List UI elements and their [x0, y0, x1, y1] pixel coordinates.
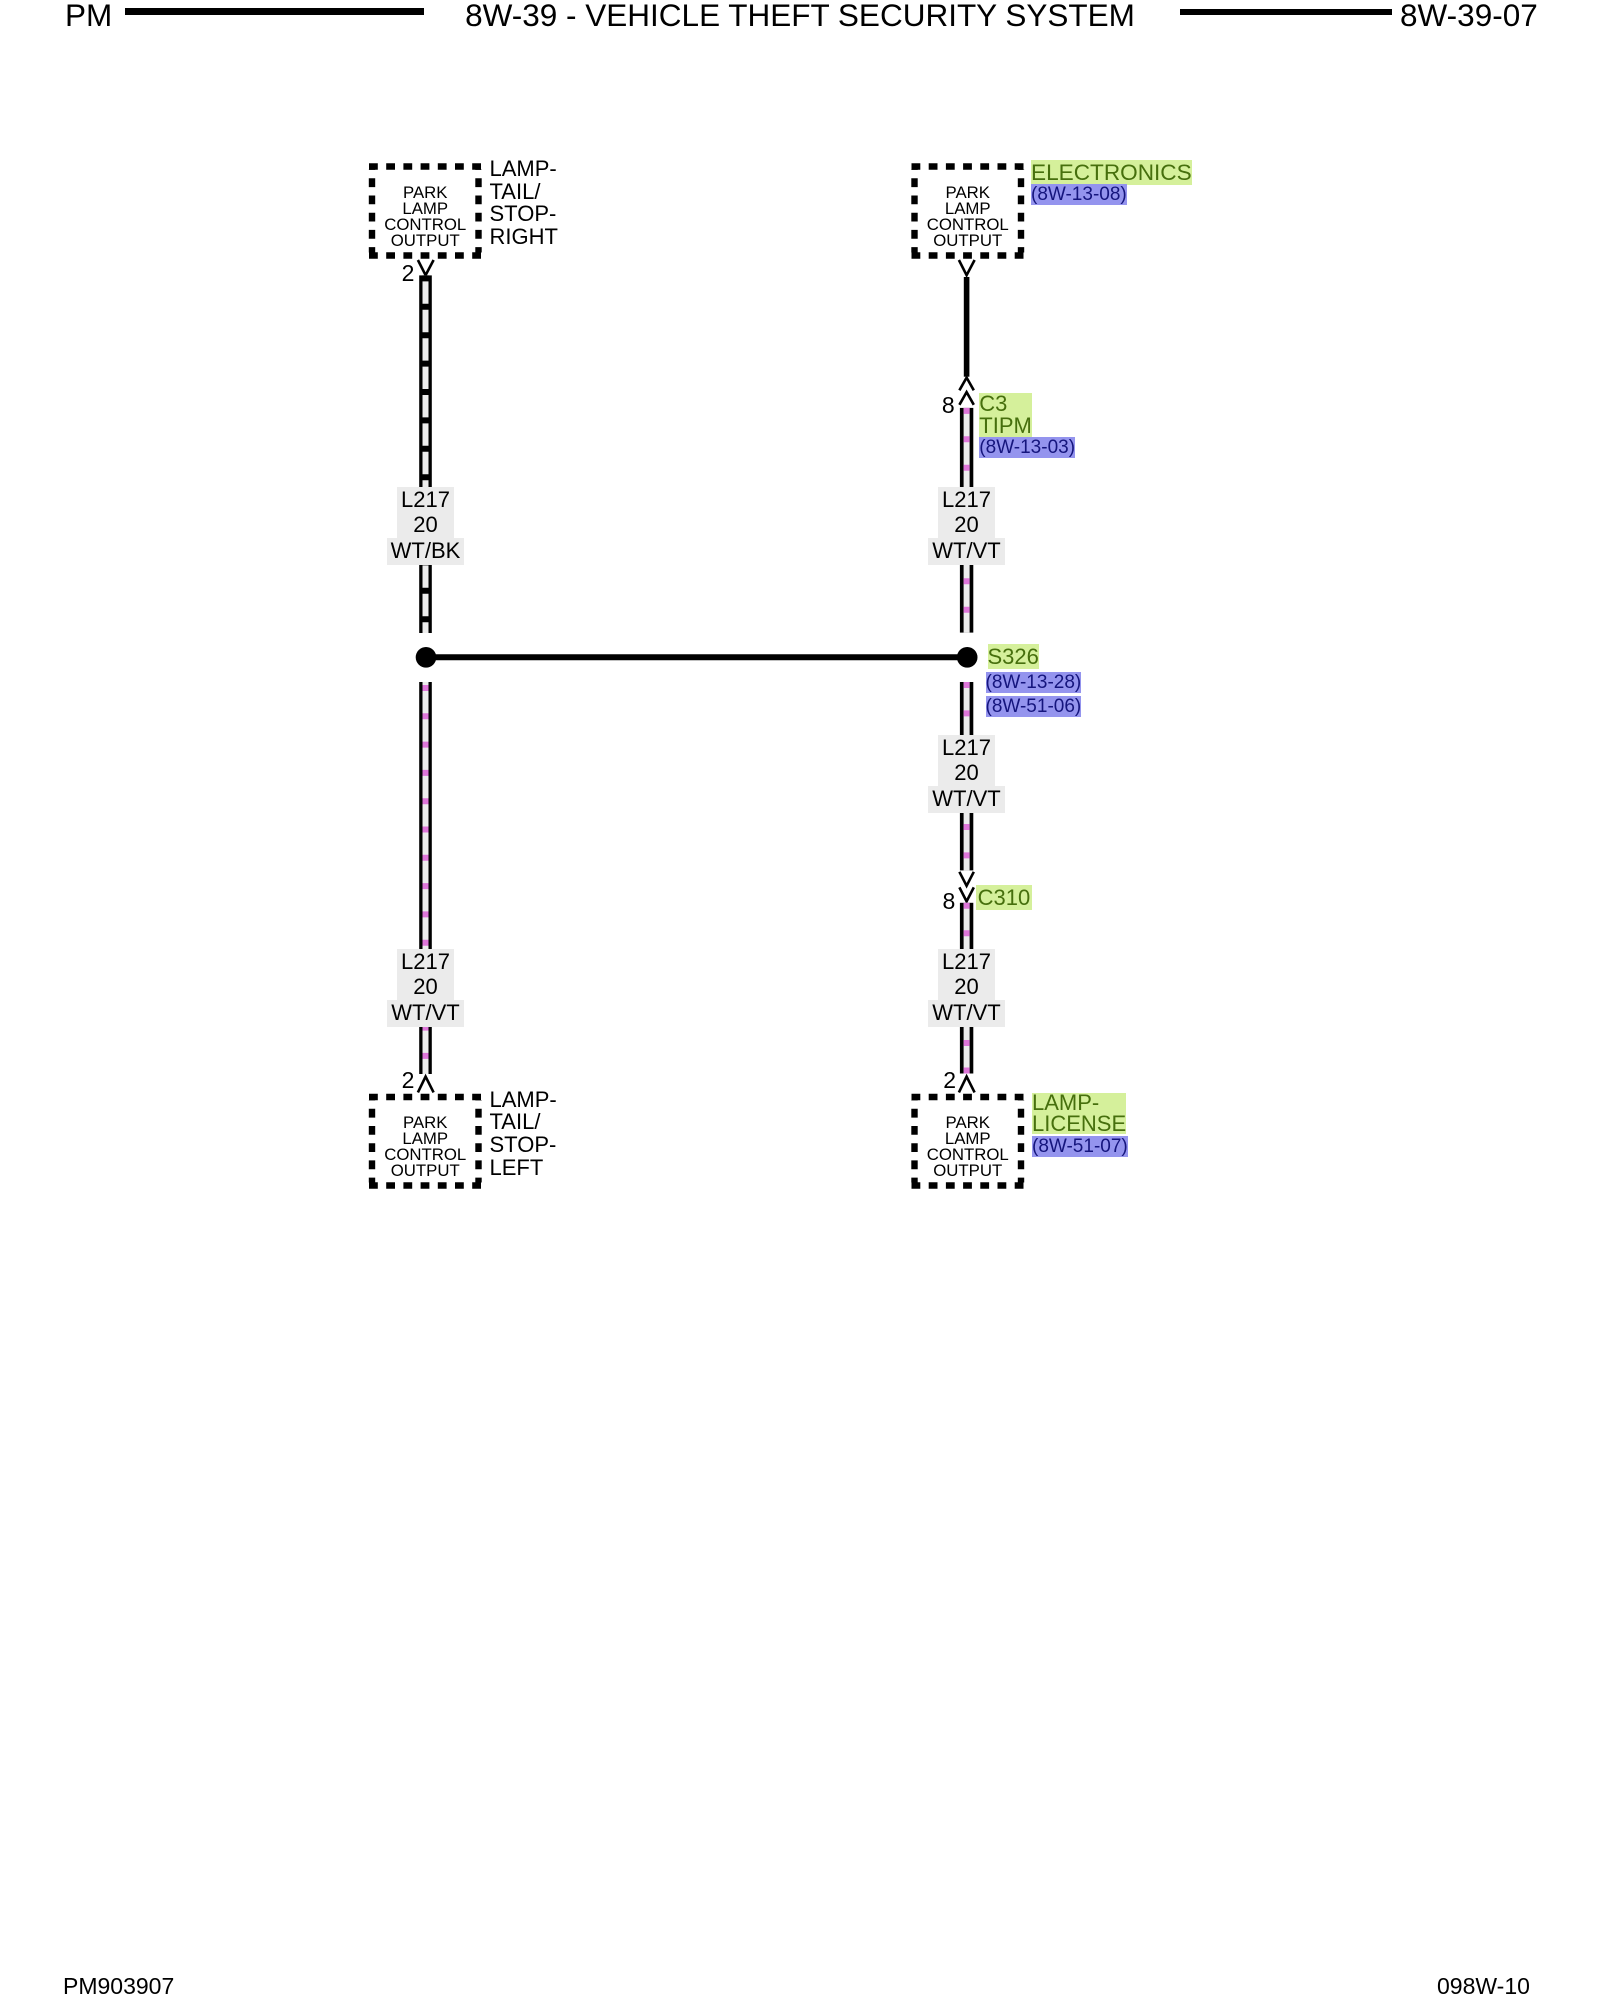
- connector box top-left PARK LAMP CONTROL OUTPUT: [369, 167, 482, 256]
- wire label L217 20 WT/VT right middle: [887, 735, 1047, 813]
- pin 8 at C310: [925, 890, 955, 913]
- wire solid black to C3: [964, 277, 970, 377]
- connector box bottom-right PARK LAMP CONTROL OUTPUT: [912, 1097, 1025, 1186]
- node label LAMP-TAIL/STOP-LEFT: [490, 1089, 557, 1180]
- arrow out of top-right connector: [959, 260, 975, 275]
- splice S326 horizontal wire: [426, 654, 968, 660]
- reference (8W-13-28): [986, 672, 1082, 694]
- connector label C310: [976, 887, 1033, 909]
- pin 2 bottom-right: [926, 1069, 956, 1092]
- connector label C3 TIPM: [979, 393, 1032, 437]
- splice label S326: [988, 646, 1039, 669]
- wire label L217 20 WT/BK: [346, 487, 506, 565]
- pin 8 at C3: [925, 394, 955, 417]
- in-line connector C310 chevrons: [959, 872, 973, 902]
- wire L217 20 WT/VT (right middle segment): [960, 682, 973, 870]
- footer document number: [63, 1975, 174, 1998]
- reference (8W-51-07): [1032, 1136, 1128, 1157]
- header title center: [0, 0, 1600, 31]
- connector box top-left text: [369, 185, 482, 249]
- splice S326 junction dot right: [957, 647, 978, 668]
- wire label L217 20 WT/VT right upper: [887, 487, 1047, 565]
- connector box bottom-left text: [369, 1115, 482, 1179]
- wire label L217 20 WT/VT left lower: [346, 949, 506, 1027]
- in-line connector C3 chevrons: [959, 378, 973, 405]
- reference (8W-13-08): [1031, 184, 1127, 205]
- node label LAMP-TAIL/STOP-RIGHT: [490, 158, 558, 249]
- footer sheet number: [1437, 1975, 1530, 1998]
- reference (8W-51-06): [986, 696, 1082, 718]
- connector box top-right text: [912, 185, 1025, 249]
- arrow out of top-left connector pin 2: [418, 260, 434, 275]
- node label LAMP-LICENSE: [1032, 1093, 1126, 1134]
- connector box bottom-right text: [912, 1115, 1025, 1179]
- wire L217 20 WT/VT (right upper segment): [960, 408, 973, 633]
- splice S326 junction dot left: [416, 647, 437, 668]
- node label ELECTRONICS: [1031, 161, 1192, 184]
- arrow into bottom-right connector pin 2: [959, 1077, 975, 1093]
- reference (8W-13-03): [979, 437, 1075, 459]
- header title PM: [65, 0, 112, 31]
- wire L217 20 WT/VT (left lower segment): [419, 682, 432, 1074]
- wire L217 20 WT/BK (left upper segment): [419, 275, 432, 633]
- header rule right: [1180, 9, 1392, 15]
- header page number: [1400, 0, 1538, 31]
- header rule left: [125, 8, 424, 15]
- wire label L217 20 WT/VT right lower: [887, 949, 1047, 1027]
- pin 2 top-left: [384, 262, 414, 285]
- arrow into bottom-left connector pin 2: [418, 1077, 434, 1093]
- connector box bottom-left PARK LAMP CONTROL OUTPUT: [369, 1097, 482, 1186]
- pin 2 bottom-left: [384, 1069, 414, 1092]
- wire L217 20 WT/VT (right lower segment): [960, 903, 973, 1074]
- connector box top-right PARK LAMP CONTROL OUTPUT: [912, 167, 1025, 256]
